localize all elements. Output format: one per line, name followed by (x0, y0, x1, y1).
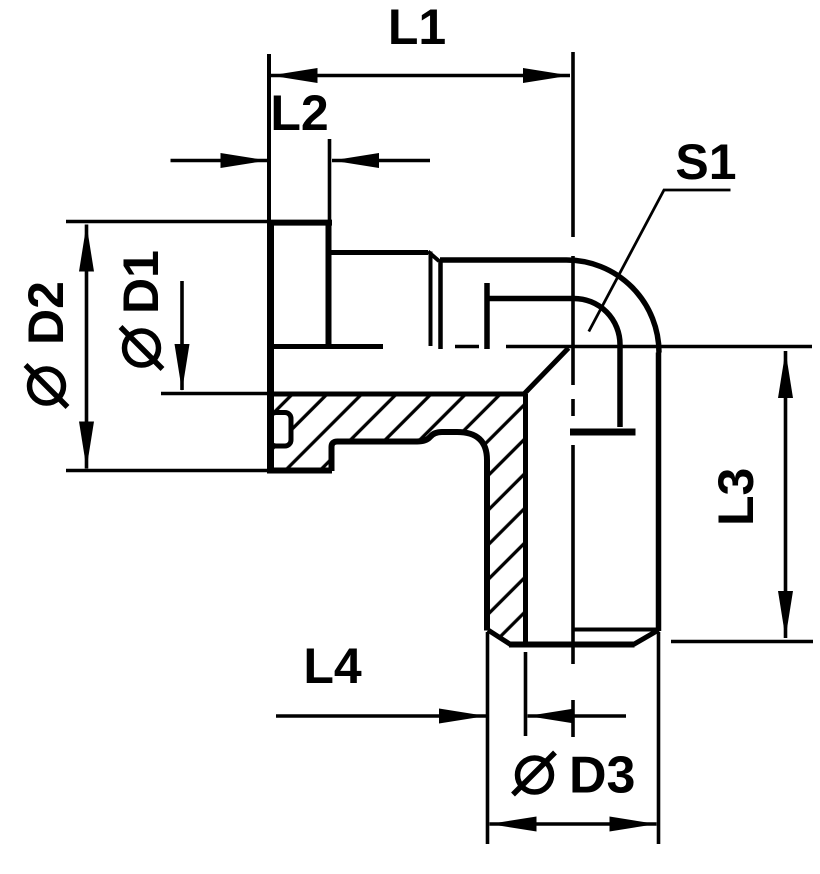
svg-text:D3: D3 (569, 747, 635, 805)
svg-text:D2: D2 (18, 281, 74, 345)
svg-text:L4: L4 (303, 638, 362, 694)
svg-text:L1: L1 (388, 0, 446, 55)
svg-text:L2: L2 (270, 85, 328, 141)
svg-text:L3: L3 (708, 468, 764, 526)
svg-text:D1: D1 (113, 250, 169, 314)
svg-text:S1: S1 (675, 134, 736, 190)
